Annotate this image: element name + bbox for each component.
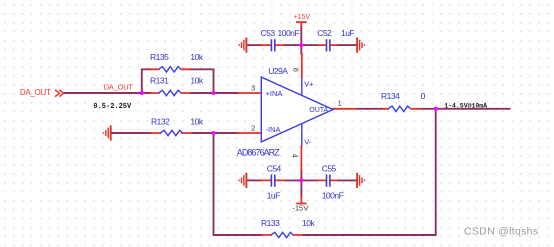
- svg-text:R131: R131: [150, 75, 169, 85]
- svg-text:1uF: 1uF: [267, 191, 280, 201]
- svg-text:DA_OUT: DA_OUT: [104, 83, 134, 92]
- svg-text:10k: 10k: [190, 117, 203, 127]
- svg-text:OUTA: OUTA: [309, 107, 328, 114]
- svg-text:+INA: +INA: [266, 89, 283, 98]
- svg-text:CSDN @ltqshs: CSDN @ltqshs: [464, 226, 538, 238]
- svg-text:AD8676ARZ: AD8676ARZ: [237, 148, 280, 158]
- svg-text:R132: R132: [151, 117, 170, 127]
- svg-text:2: 2: [251, 125, 255, 132]
- svg-text:1: 1: [338, 101, 342, 108]
- svg-text:C52: C52: [317, 28, 332, 38]
- svg-text:1uF: 1uF: [341, 28, 354, 38]
- svg-text:100nF: 100nF: [322, 191, 344, 201]
- svg-text:4: 4: [291, 154, 298, 158]
- svg-text:DA_OUT: DA_OUT: [20, 88, 51, 97]
- svg-text:V-: V-: [304, 137, 312, 146]
- svg-text:10k: 10k: [302, 218, 315, 228]
- svg-text:C54: C54: [267, 163, 282, 173]
- svg-text:-INA: -INA: [266, 125, 281, 134]
- svg-text:C55: C55: [322, 163, 337, 173]
- svg-text:V+: V+: [304, 79, 314, 88]
- svg-text:100nF: 100nF: [278, 28, 300, 38]
- svg-text:+15V: +15V: [294, 14, 311, 21]
- svg-text:-15V: -15V: [292, 204, 308, 213]
- svg-text:U29A: U29A: [268, 66, 288, 76]
- svg-text:10k: 10k: [190, 52, 203, 62]
- svg-text:8: 8: [292, 68, 299, 72]
- svg-text:3: 3: [251, 85, 255, 92]
- svg-text:C53: C53: [261, 28, 276, 38]
- svg-text:10k: 10k: [190, 75, 203, 85]
- svg-text:R133: R133: [261, 218, 280, 228]
- svg-text:R134: R134: [381, 91, 400, 101]
- svg-text:1-4.5V@10mA: 1-4.5V@10mA: [444, 102, 487, 109]
- svg-text:0.5-2.25V: 0.5-2.25V: [93, 103, 132, 111]
- svg-text:R135: R135: [150, 52, 169, 62]
